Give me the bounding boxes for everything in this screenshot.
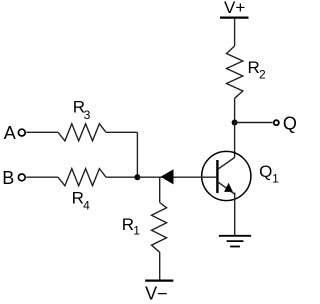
terminal Q — [274, 120, 279, 125]
power V- bar — [145, 280, 173, 282]
wire A to R3 — [26, 131, 58, 133]
wire node down to R1 — [159, 177, 161, 202]
svg-text:R: R — [248, 58, 260, 77]
svg-text:1: 1 — [272, 171, 279, 185]
power V+ bar — [220, 17, 249, 19]
svg-text:V−: V− — [145, 284, 168, 304]
wire node to Q terminal — [235, 122, 273, 124]
wire R2 to collector node — [234, 98, 236, 122]
label R2 — [248, 58, 267, 82]
label R4 — [72, 188, 91, 212]
wire B to R4 — [26, 176, 58, 178]
label R3 — [73, 97, 91, 122]
wire R1 to V- bar — [159, 252, 161, 279]
resistor R4 — [58, 169, 106, 186]
resistor R3 — [58, 124, 106, 141]
svg-text:B: B — [2, 168, 14, 188]
svg-text:1: 1 — [133, 224, 140, 238]
wire V+ to R2 — [234, 19, 236, 47]
svg-text:4: 4 — [83, 199, 90, 213]
label R1 — [122, 215, 140, 237]
wire node to base — [137, 176, 216, 178]
wire elbow down to node — [136, 132, 138, 177]
svg-text:Q: Q — [259, 162, 272, 181]
wire R4 to node — [106, 176, 137, 178]
transistor Q1 — [202, 151, 251, 200]
wire emitter to ground — [234, 193, 236, 236]
svg-text:A: A — [4, 123, 16, 143]
ground — [219, 236, 251, 247]
node collector junction — [232, 120, 238, 126]
node input junction — [134, 174, 140, 180]
svg-text:R: R — [72, 188, 84, 207]
svg-text:3: 3 — [84, 108, 91, 122]
label Q1 — [259, 162, 279, 185]
terminal B — [18, 174, 25, 181]
svg-text:2: 2 — [259, 68, 266, 82]
svg-text:V+: V+ — [224, 0, 245, 17]
wire node to transistor collector — [234, 123, 236, 158]
wire R3 to elbow — [106, 131, 137, 133]
resistor R1 — [152, 203, 167, 253]
terminal A — [18, 129, 25, 136]
arrow on base wire — [161, 169, 174, 184]
svg-text:Q: Q — [283, 114, 297, 134]
resistor R2 — [227, 46, 243, 98]
